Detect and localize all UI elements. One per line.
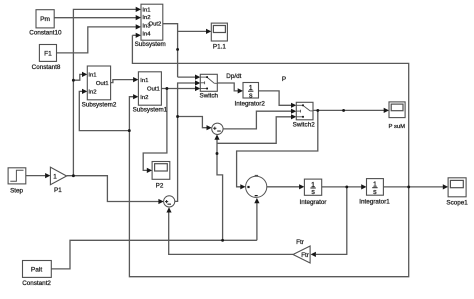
wire Palt up and along bottom row <box>51 240 257 269</box>
step source Step <box>8 168 26 184</box>
arrowhead into Switch in3 <box>195 86 200 91</box>
subsystem Subsystem1 <box>138 72 161 105</box>
switch Switch2 <box>296 102 313 120</box>
wire Subsystem Out2 down <box>163 24 178 77</box>
sign minus of Sum3 <box>167 204 171 205</box>
value 1/s of Integrator2 <box>248 85 253 99</box>
svg-text:Integrator1: Integrator1 <box>359 198 390 205</box>
wire tap to Ftr input <box>316 187 347 255</box>
arrowhead into Subsystem2 In2 <box>82 89 87 94</box>
svg-text:Ftr: Ftr <box>301 252 309 259</box>
arrowhead into Sum1 bottom <box>254 198 259 203</box>
junction dot Subsystem2 In1 branch <box>72 79 75 82</box>
svg-text:Subsystem1: Subsystem1 <box>133 107 168 114</box>
svg-text:Palt: Palt <box>31 266 43 273</box>
arrowhead into Subsystem In1 <box>136 7 141 12</box>
constant Palt <box>23 261 52 278</box>
wire Palt riser to Sum1 bottom <box>256 203 258 240</box>
arrowhead into Sum3 left <box>158 199 163 204</box>
wire Pm to Subsystem In2 <box>54 17 136 19</box>
wire Step to P1 <box>26 175 45 177</box>
svg-text:Constant8: Constant8 <box>32 64 61 71</box>
wire Palt net to Switch2 in3 <box>217 117 292 144</box>
junction dot Switch2 output branch <box>316 109 319 112</box>
arrowhead into Subsystem1 In2 <box>133 94 138 99</box>
wire branch to scope P1.1 <box>178 30 207 32</box>
value 1/s of Integrator <box>310 182 315 196</box>
arrowhead into Subsystem In3 <box>136 24 141 29</box>
svg-text:P suM: P suM <box>389 124 406 130</box>
wire Switch output to Integrator2 <box>217 83 238 91</box>
arrowhead into Sum2 left <box>207 125 212 130</box>
integrator Integrator <box>304 179 321 195</box>
arrowhead into Sum3 bottom <box>166 207 171 212</box>
arrowhead into Switch in1 <box>195 75 200 80</box>
integrator Integrator1 <box>367 179 384 196</box>
sign plus of Sum2 <box>213 127 216 130</box>
svg-text:Out2: Out2 <box>149 22 162 28</box>
arrowhead into Switch2 in1 <box>291 103 296 108</box>
svg-text:Integrator: Integrator <box>300 199 327 206</box>
svg-text:Switch: Switch <box>200 93 219 100</box>
svg-text:1: 1 <box>53 174 57 181</box>
svg-text:F1: F1 <box>44 50 52 57</box>
junction dot on Sum3 output line <box>176 115 179 118</box>
wire Out2 net to Switch in1 <box>178 76 196 78</box>
arrowhead into Switch2 in2 <box>291 109 296 114</box>
value 1/s of Integrator1 <box>372 182 377 196</box>
svg-text:Subsystem: Subsystem <box>135 41 166 48</box>
svg-text:Switch2: Switch2 <box>293 121 316 128</box>
svg-text:In2: In2 <box>140 95 148 101</box>
wire branch to Sum2 left input <box>178 117 208 128</box>
scope P suM <box>389 102 405 118</box>
wire Integrator to Integrator1 <box>322 186 362 188</box>
svg-text:Integrator2: Integrator2 <box>234 101 265 108</box>
switch Switch <box>200 74 217 91</box>
svg-text:Ftr: Ftr <box>296 239 304 246</box>
arrowhead into Switch in2 <box>195 80 200 85</box>
wire Integrator1 to Scope1 <box>383 186 443 188</box>
gain P1 <box>50 167 66 185</box>
arrowhead into scope P2 <box>147 168 152 173</box>
arrowhead into Ftr (pointing left) <box>311 252 316 257</box>
wire P1 output to Sum3 <box>67 176 160 202</box>
junction dot on Sum2 bottom line <box>216 152 219 155</box>
svg-text:Dp/dt: Dp/dt <box>226 73 241 80</box>
junction dot Integrator1 output at loop <box>407 185 410 188</box>
svg-text:Constant2: Constant2 <box>22 280 51 287</box>
wire Switch2 branch to Sum1 left input <box>237 110 318 186</box>
svg-text:Subsystem2: Subsystem2 <box>82 101 117 108</box>
junction dot on Out2 line <box>176 48 179 51</box>
wire Sum1 output to Integrator <box>267 186 300 188</box>
svg-text:P1.1: P1.1 <box>213 43 226 50</box>
arrowhead into Sum2 bottom <box>214 134 219 139</box>
svg-text:s: s <box>373 189 377 196</box>
arrowhead into scope P suM <box>384 108 389 113</box>
svg-text:Pm: Pm <box>40 16 50 23</box>
svg-text:P: P <box>282 76 286 83</box>
svg-text:In2: In2 <box>142 15 150 21</box>
sum Sum2 <box>212 123 223 134</box>
wire Ftr output to Sum3 bottom <box>169 212 293 254</box>
arrowhead into Switch2 in3 <box>291 114 296 119</box>
arrowhead into scope P1.1 <box>206 29 211 34</box>
wire In4 stub <box>132 34 136 36</box>
svg-text:Step: Step <box>10 188 23 195</box>
junction dot P1 output branch <box>72 174 75 177</box>
sign plus of Sum3 <box>165 200 168 203</box>
svg-text:Out1: Out1 <box>96 81 109 87</box>
arrowhead into Subsystem1 In1 <box>133 77 138 82</box>
scope P1.1 <box>211 23 227 41</box>
wire feedback branch to Subsystem2 In2 <box>79 91 129 130</box>
svg-text:Out1: Out1 <box>147 86 160 92</box>
wire branch to Subsystem2 In1 <box>73 74 82 80</box>
scope Scope1 <box>448 178 466 197</box>
junction dot on Palt wire at Sum2 branch <box>221 239 224 242</box>
sum Sum1 <box>246 175 267 198</box>
svg-text:P2: P2 <box>156 183 164 190</box>
integrator Integrator2 <box>243 83 259 99</box>
arrowhead into Integrator1 <box>361 184 366 189</box>
junction dot Subsystem1 Out1 branch <box>165 87 168 90</box>
wire Subsystem1 Out1 to Switch in3 <box>161 88 195 90</box>
arrowhead into Integrator <box>299 184 304 189</box>
wire F1 to Subsystem In3 <box>57 27 137 53</box>
arrowhead into Scope1 <box>443 184 448 189</box>
arrowhead into Subsystem In4 <box>136 33 141 38</box>
scope P2 <box>152 162 170 180</box>
svg-text:In1: In1 <box>142 8 150 14</box>
wire Sum3 output up to Switch in2 <box>175 83 196 201</box>
constant Pm <box>36 10 54 28</box>
junction dot on P suM wire <box>342 109 345 112</box>
wire Subsystem2 Out1 to Subsystem1 In1 <box>111 80 134 83</box>
svg-text:Constant10: Constant10 <box>29 30 62 37</box>
sum Sum3 <box>164 196 175 207</box>
gain Ftr (points left) <box>293 246 310 263</box>
subsystem Subsystem2 <box>87 66 110 100</box>
svg-text:s: s <box>311 189 315 196</box>
sign minus of Sum2 <box>217 131 221 132</box>
svg-text:In4: In4 <box>142 31 151 37</box>
arrowhead into Sum1 left <box>240 184 245 189</box>
arrowhead into Integrator2 <box>238 88 243 93</box>
wire Switch2 output to scope P suM <box>313 109 385 111</box>
arrowhead into Subsystem2 In1 <box>82 72 87 77</box>
wire Integrator2 output to Switch2 in1 <box>259 91 292 105</box>
svg-text:In2: In2 <box>88 90 96 96</box>
wire Out1 branch down to scope P2 <box>143 89 167 171</box>
constant F1 <box>39 45 56 62</box>
arrowhead into Subsystem In2 <box>136 15 141 20</box>
wire Palt branch to Sum2 bottom <box>217 139 223 240</box>
svg-text:P1: P1 <box>54 187 62 194</box>
svg-text:In1: In1 <box>88 73 96 79</box>
arrowhead into P1 <box>45 173 50 178</box>
wire P1 riser to Subsystem In1 <box>73 9 136 175</box>
junction dot feedback to In2 branch <box>128 129 131 132</box>
junction dot Ftr tap <box>345 185 348 188</box>
svg-text:s: s <box>249 92 253 99</box>
wire giant feedback loop from Integrator1 output <box>129 35 408 276</box>
svg-text:Scope1: Scope1 <box>446 199 468 206</box>
subsystem U1 Subsystem <box>141 4 163 40</box>
svg-text:In1: In1 <box>140 78 148 84</box>
wire Sum2 output to Switch2 in2 <box>223 111 292 129</box>
